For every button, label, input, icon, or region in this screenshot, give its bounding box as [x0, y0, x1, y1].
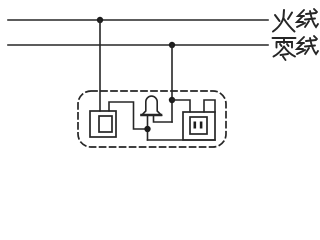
label 火线 character 火	[273, 10, 295, 32]
live wire line (火线)	[8, 19, 268, 21]
socket left slot	[194, 122, 197, 129]
lamp right terminal wire to neutral drop	[154, 116, 173, 122]
wire from neutral junction to socket left terminal	[172, 100, 190, 112]
wire from socket right terminal over the top to right edge	[204, 100, 215, 112]
label 火线 character 线	[297, 9, 318, 27]
wire from neutral line down to lamp branch	[171, 45, 173, 122]
node on live wire	[97, 17, 103, 23]
lamp L1 bulb outline	[142, 96, 161, 115]
socket X1 outer square	[183, 112, 215, 140]
switch S1 outer square	[90, 111, 116, 137]
socket X1 inner square	[190, 117, 207, 134]
socket right slot	[200, 122, 203, 129]
dashed enclosure box	[78, 91, 226, 147]
label 零线 character 线	[297, 36, 318, 54]
lamp base bottom bar	[142, 114, 162, 117]
node on neutral wire	[169, 42, 175, 48]
switch S1 inner square	[99, 116, 112, 132]
node junction inside box on neutral drop	[169, 97, 175, 103]
wire from live line down to switch	[99, 20, 101, 111]
neutral wire line (零线)	[8, 44, 268, 46]
wire from switch second terminal to lamp junction	[109, 102, 145, 129]
bottom wire from lamp junction to socket right side	[148, 139, 216, 141]
node junction below lamp	[144, 126, 150, 132]
label 零线 character 零	[273, 38, 296, 60]
lamp left terminal wire down	[147, 116, 149, 140]
